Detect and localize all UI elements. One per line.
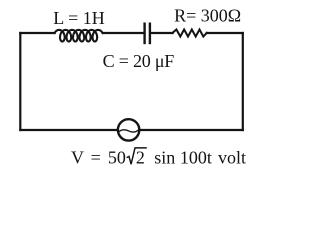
capacitor C1 right plate [149, 24, 151, 43]
wire resistor to top-right corner [207, 32, 243, 34]
wire left vertical [19, 33, 21, 130]
svg-text:V = 50: V = 50 [71, 148, 126, 168]
wire bottom right segment [140, 129, 243, 131]
svg-text:100t: 100t [180, 148, 212, 168]
sqrt radical sign [127, 148, 147, 164]
svg-text:2: 2 [136, 148, 145, 168]
AC source sine symbol [118, 130, 138, 133]
svg-text:volt: volt [218, 148, 246, 168]
svg-text:R= 300Ω: R= 300Ω [174, 5, 241, 25]
capacitor C1 left plate [143, 24, 145, 43]
inductor L1 coil [55, 30, 103, 42]
wire inductor to capacitor [103, 32, 143, 34]
AC source V1 circle [118, 119, 139, 140]
svg-text:C = 20 μF: C = 20 μF [103, 51, 175, 71]
resistor R1 zigzag [173, 30, 207, 37]
svg-text:L = 1H: L = 1H [53, 8, 104, 28]
wire bottom left segment [20, 129, 117, 131]
wire capacitor to resistor [151, 32, 173, 34]
wire right vertical [242, 33, 244, 130]
svg-text:sin: sin [154, 148, 175, 168]
wire top-left segment [20, 32, 54, 34]
